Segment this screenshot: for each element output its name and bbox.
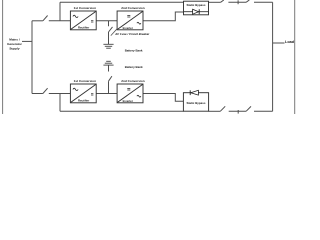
svg-text:Battery Bank: Battery Bank xyxy=(125,48,143,52)
svg-text:Inverter: Inverter xyxy=(123,26,134,30)
svg-text:1st Conversion: 1st Conversion xyxy=(74,6,96,10)
svg-text:2nd Conversion: 2nd Conversion xyxy=(121,6,144,10)
svg-text:Mains /: Mains / xyxy=(9,37,20,41)
svg-text:1st Conversion: 1st Conversion xyxy=(74,79,96,83)
svg-text:Supply: Supply xyxy=(9,47,20,51)
svg-text:Static Bypass: Static Bypass xyxy=(187,101,206,105)
svg-text:Rectifier: Rectifier xyxy=(78,26,90,30)
svg-text:Generator: Generator xyxy=(7,42,23,46)
svg-text:AC Fuse / Circuit Breaker: AC Fuse / Circuit Breaker xyxy=(114,32,150,36)
svg-text:Inverter: Inverter xyxy=(123,99,134,103)
svg-text:Static Bypass: Static Bypass xyxy=(187,3,206,7)
svg-text:Battery Bank: Battery Bank xyxy=(125,65,143,69)
svg-text:2nd Conversion: 2nd Conversion xyxy=(121,79,144,83)
svg-text:Rectifier: Rectifier xyxy=(78,99,90,103)
svg-text:Load: Load xyxy=(285,40,295,44)
